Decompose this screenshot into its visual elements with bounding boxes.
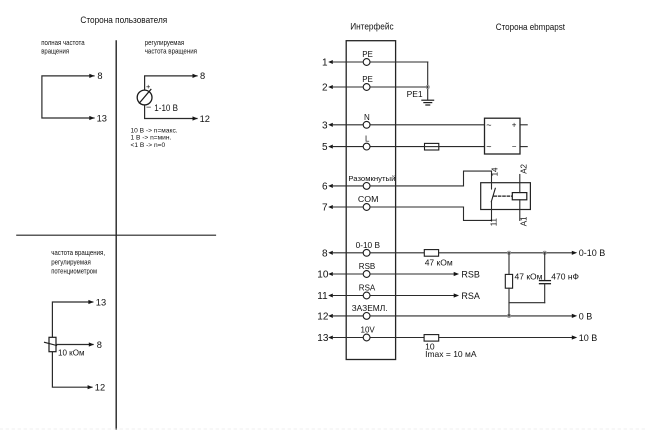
arrow out 0 V	[572, 314, 577, 318]
arrow out 10 V	[572, 335, 577, 339]
capacitor 470 nF	[544, 253, 546, 280]
junction: line 8 / capacitor branch	[543, 251, 546, 254]
separator: vertical divider line	[115, 41, 117, 429]
svg-text:~: ~	[486, 120, 491, 130]
svg-text:47 кОм: 47 кОм	[515, 272, 543, 282]
svg-text:0-10 В: 0-10 В	[579, 248, 606, 258]
potentiometer R 10 kOhm	[49, 337, 56, 351]
relay coil lead A1	[519, 200, 521, 221]
svg-text:1: 1	[322, 58, 328, 69]
svg-text:47 кОм: 47 кОм	[425, 257, 453, 267]
svg-text:5: 5	[322, 142, 328, 153]
svg-text:PE1: PE1	[407, 89, 423, 99]
svg-text:10: 10	[317, 270, 329, 281]
resistor 47 kOhm (shunt, vertical)	[508, 253, 510, 275]
power supply box (rectifier)	[485, 118, 521, 154]
svg-text:0-10 В: 0-10 В	[356, 241, 380, 250]
arrow to 8 (adjustable)	[193, 74, 198, 78]
svg-text:Сторона ebmpapst: Сторона ebmpapst	[496, 22, 566, 32]
arrow to 8 (pot wiper)	[89, 342, 94, 346]
svg-text:12: 12	[317, 312, 329, 323]
svg-text:Imax = 10 мА: Imax = 10 мА	[425, 349, 477, 359]
svg-text:13: 13	[96, 297, 106, 307]
svg-text:вращения: вращения	[41, 46, 69, 55]
svg-text:14: 14	[491, 167, 500, 176]
svg-text:12: 12	[200, 114, 210, 124]
svg-text:<1 В -> n=0: <1 В -> n=0	[131, 142, 166, 149]
wire: pot wiper to 8	[56, 344, 93, 346]
svg-text:10V: 10V	[361, 326, 376, 335]
wire: + output stub	[520, 124, 527, 126]
wire: PE drop to ground	[427, 62, 429, 100]
wire: pot top lead to 13	[52, 302, 92, 337]
svg-text:частота вращения,: частота вращения,	[51, 248, 105, 257]
wire: cap bottom to resistor leg	[509, 302, 545, 304]
resistor 47 kOhm (series)	[424, 250, 438, 257]
arrow out RSA	[454, 293, 459, 297]
svg-text:8: 8	[97, 340, 102, 350]
interface box	[346, 41, 395, 360]
svg-text:13: 13	[97, 113, 107, 123]
svg-text:RSB: RSB	[461, 269, 480, 279]
svg-text:Разомкнутый: Разомкнутый	[348, 174, 395, 183]
svg-text:11: 11	[490, 217, 499, 226]
svg-text:потенциометром: потенциометром	[51, 267, 97, 276]
svg-text:12: 12	[95, 383, 105, 393]
svg-text:+: +	[146, 82, 151, 91]
relay contact pin 11	[491, 202, 493, 221]
svg-text:10 кОм: 10 кОм	[58, 347, 85, 357]
svg-text:8: 8	[322, 248, 328, 259]
svg-text:PE: PE	[362, 50, 373, 59]
svg-text:RSA: RSA	[359, 284, 376, 293]
svg-text:ЗАЗЕМЛ.: ЗАЗЕМЛ.	[352, 304, 388, 313]
relay contact blade	[491, 188, 495, 201]
fuse F1	[425, 143, 439, 150]
arrow to 13 (pot)	[88, 300, 93, 304]
junction: line 12 / resistor branch	[507, 314, 510, 317]
svg-text:A1: A1	[520, 216, 529, 226]
svg-text:+: +	[512, 120, 517, 129]
separator: horizontal divider line	[17, 234, 216, 236]
faint scan artifact at bottom	[0, 428, 645, 430]
svg-text:~: ~	[486, 142, 491, 152]
relay coil	[512, 193, 527, 200]
svg-text:1 В -> n=мин.: 1 В -> n=мин.	[131, 135, 172, 142]
wire: 6 up-step to relay contact 14	[464, 171, 492, 186]
svg-text:−: −	[512, 142, 517, 151]
svg-text:1-10 В: 1-10 В	[154, 103, 178, 113]
resistor 10 Ohm (series)	[424, 335, 439, 342]
svg-text:8: 8	[97, 71, 102, 81]
junction: PE lines	[426, 85, 429, 88]
svg-text:регулируемая: регулируемая	[51, 257, 91, 266]
svg-text:470 нФ: 470 нФ	[551, 272, 579, 282]
svg-text:RSB: RSB	[359, 262, 375, 271]
arrow to 8 (full speed)	[89, 74, 94, 78]
svg-text:8: 8	[200, 71, 205, 81]
svg-text:3: 3	[322, 120, 328, 131]
svg-text:10 В -> n=макс.: 10 В -> n=макс.	[131, 128, 178, 135]
svg-text:PE: PE	[362, 75, 373, 84]
voltage source 1-10 V	[137, 90, 152, 105]
wire: - output stub	[520, 146, 527, 148]
arrow to 12 (adjustable)	[193, 116, 198, 120]
arrow to 13 (full speed)	[89, 116, 94, 120]
svg-text:13: 13	[317, 333, 329, 344]
svg-text:6: 6	[322, 182, 328, 193]
arrow to 12 (pot)	[88, 385, 93, 389]
svg-text:0 В: 0 В	[579, 311, 593, 321]
arrow out RSB	[454, 272, 459, 276]
svg-text:11: 11	[317, 291, 328, 302]
relay contact pin 14	[491, 171, 493, 189]
relay coil lead A2	[519, 175, 521, 193]
wire: source top lead to 8	[145, 76, 197, 90]
wire: pot bottom lead to 12	[52, 352, 92, 388]
wire: full-speed bracket	[42, 76, 94, 118]
svg-text:A2: A2	[520, 163, 529, 173]
svg-text:2: 2	[322, 83, 328, 94]
svg-text:частота вращения: частота вращения	[145, 46, 197, 55]
svg-text:L: L	[365, 135, 370, 144]
svg-text:Сторона пользователя: Сторона пользователя	[80, 15, 167, 25]
svg-text:Интерфейс: Интерфейс	[350, 21, 394, 31]
svg-text:7: 7	[322, 203, 328, 214]
svg-text:COM: COM	[358, 195, 379, 204]
relay actuation dashed link	[494, 195, 512, 197]
wire: source bottom lead to 12	[145, 105, 197, 119]
wire: 7 down-step to relay contact 11	[464, 207, 492, 220]
junction: line 8 / resistor branch	[507, 251, 510, 254]
relay K1 outline	[481, 183, 531, 210]
arrow out 0-10 V	[572, 251, 577, 255]
svg-text:10 В: 10 В	[579, 333, 598, 343]
svg-text:−: −	[146, 102, 151, 112]
svg-text:N: N	[364, 113, 370, 122]
svg-text:RSA: RSA	[461, 291, 480, 301]
